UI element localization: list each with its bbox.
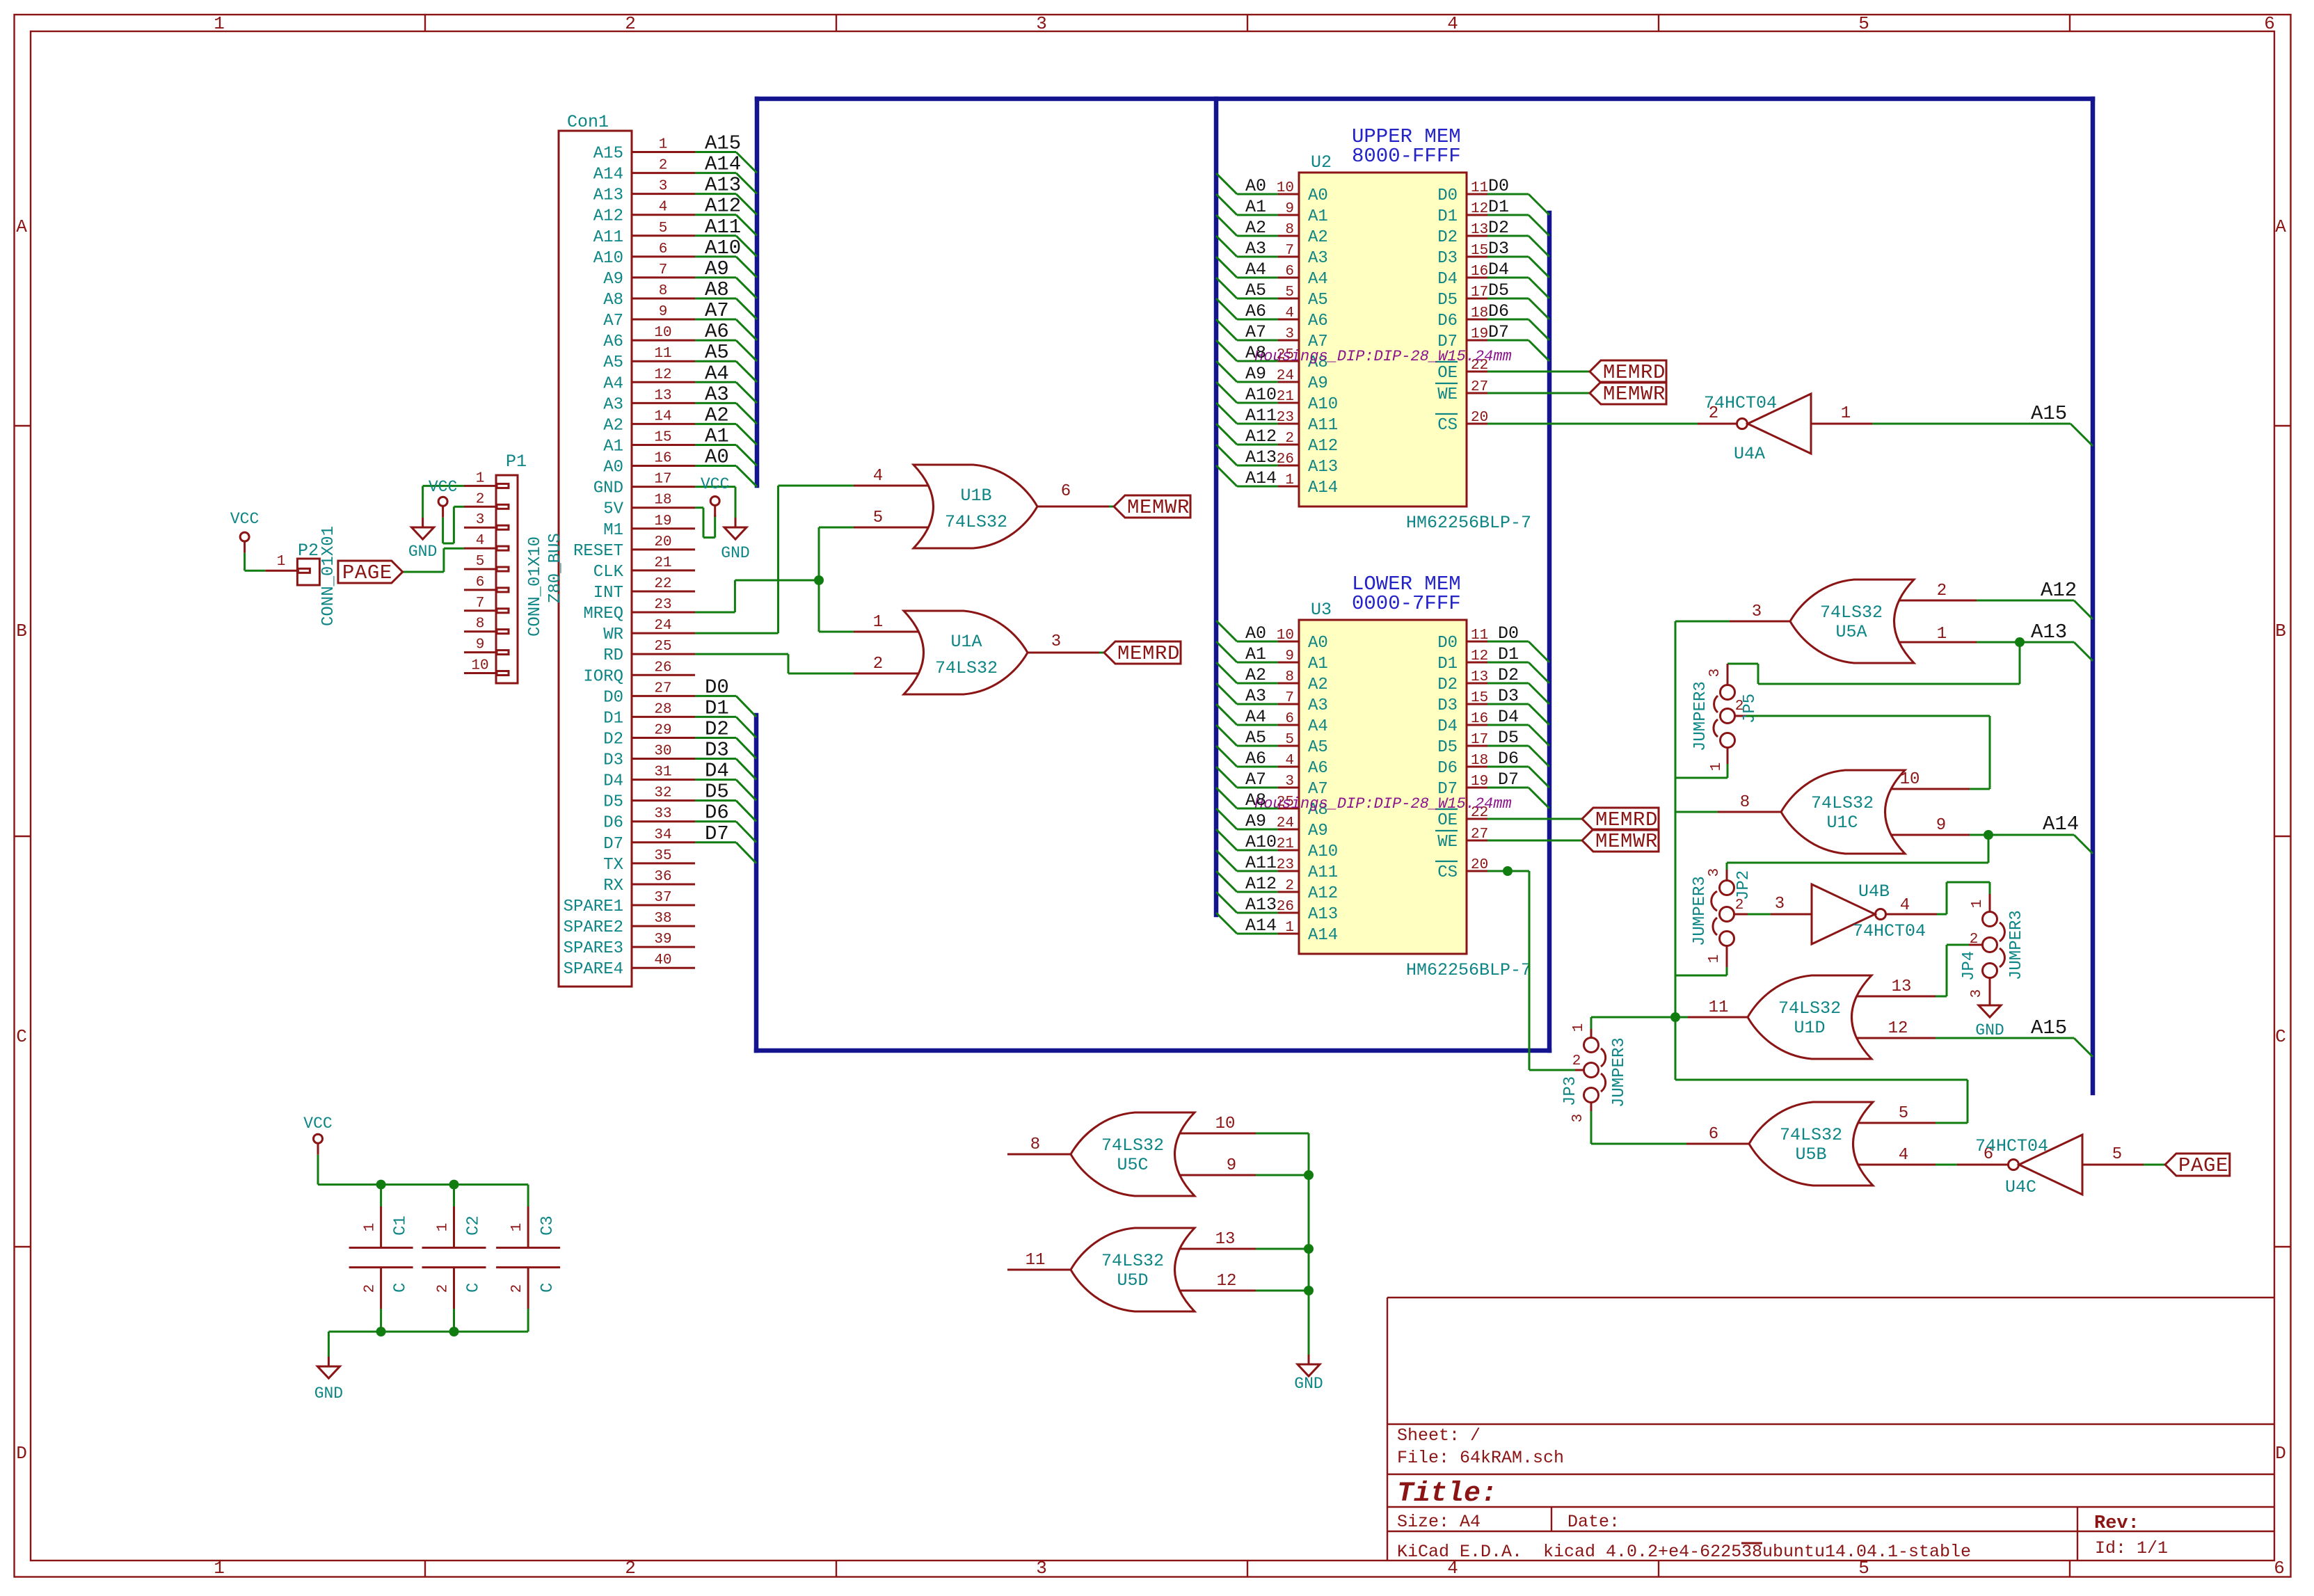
svg-text:15: 15	[654, 429, 671, 445]
svg-text:CS: CS	[1437, 863, 1458, 882]
svg-text:A6: A6	[1245, 749, 1266, 769]
svg-text:9: 9	[1285, 201, 1294, 217]
svg-text:A0: A0	[603, 458, 623, 477]
svg-text:VCC: VCC	[303, 1115, 332, 1133]
svg-text:WR: WR	[603, 625, 623, 644]
svg-text:C: C	[16, 1026, 27, 1047]
wire JP3.1 to U1D.11	[1591, 1017, 1688, 1029]
svg-text:HM62256BLP-7: HM62256BLP-7	[1406, 960, 1531, 980]
svg-text:D6: D6	[1437, 312, 1458, 330]
svg-text:D7: D7	[1498, 769, 1519, 790]
wire A0 from Con1 pin 16 to address bus	[695, 446, 757, 487]
svg-text:Title:: Title:	[1397, 1478, 1497, 1510]
svg-text:17: 17	[654, 472, 671, 488]
svg-text:A11: A11	[1308, 416, 1338, 435]
svg-text:38: 38	[654, 911, 671, 927]
svg-text:5: 5	[1285, 285, 1294, 301]
svg-text:A12: A12	[705, 195, 741, 218]
svg-text:27: 27	[654, 680, 671, 696]
svg-text:D0: D0	[1498, 623, 1519, 644]
bus: address bus vertical (Con1 side)	[755, 99, 760, 486]
svg-text:6: 6	[2264, 13, 2275, 34]
svg-text:37: 37	[654, 890, 671, 906]
wire U3 /OE to MEMRD	[1487, 818, 1582, 820]
svg-text:A0: A0	[1245, 176, 1266, 196]
bus: data bus vertical (U2/U3 side)	[1547, 213, 1552, 1051]
svg-text:D3: D3	[705, 739, 729, 762]
svg-text:5: 5	[873, 509, 883, 527]
svg-text:1: 1	[1707, 955, 1723, 964]
svg-text:GND: GND	[593, 479, 623, 498]
svg-text:D2: D2	[1488, 218, 1509, 238]
svg-text:HM62256BLP-7: HM62256BLP-7	[1406, 513, 1531, 533]
svg-text:D0: D0	[705, 676, 729, 699]
svg-text:D4: D4	[1437, 270, 1458, 289]
wire A11 from Con1 pin 5 to address bus	[695, 216, 757, 257]
svg-text:U1B: U1B	[960, 486, 991, 506]
svg-text:A7: A7	[1245, 769, 1266, 790]
ground symbol at JP4.3	[1975, 987, 2004, 1039]
svg-text:MEMRD: MEMRD	[1117, 642, 1180, 665]
svg-text:1: 1	[659, 137, 668, 153]
or-gate U5C 74LS32 (mirrored)	[1007, 1112, 1256, 1196]
svg-text:A3: A3	[1245, 239, 1266, 259]
svg-text:D4: D4	[603, 772, 623, 791]
svg-text:D: D	[16, 1443, 27, 1464]
svg-text:38: 38	[1741, 1542, 1762, 1562]
svg-text:1: 1	[1285, 472, 1294, 488]
svg-text:A13: A13	[1245, 447, 1277, 468]
svg-text:D2: D2	[1498, 665, 1519, 685]
svg-text:D5: D5	[705, 781, 729, 804]
svg-text:A2: A2	[1308, 228, 1328, 247]
svg-text:A12: A12	[1245, 426, 1277, 447]
jumper JP5 JUMPER3	[1691, 664, 1760, 771]
svg-text:16: 16	[1471, 264, 1488, 280]
svg-text:2: 2	[659, 158, 668, 174]
or-gate U1D 74LS32 (mirrored)	[1688, 975, 1936, 1059]
svg-text:17: 17	[1471, 285, 1488, 301]
svg-text:26: 26	[1277, 452, 1294, 468]
wire JP3.3 to U5B.6	[1591, 1111, 1686, 1144]
svg-text:16: 16	[1471, 711, 1488, 727]
svg-text:A4: A4	[1308, 270, 1328, 289]
svg-text:2: 2	[476, 491, 485, 507]
svg-text:A12: A12	[1245, 874, 1277, 894]
svg-text:8: 8	[1740, 793, 1750, 812]
wire U5D.13 to ground rail	[1256, 1248, 1309, 1250]
svg-text:4: 4	[476, 533, 485, 549]
svg-text:PAGE: PAGE	[2178, 1154, 2228, 1177]
svg-text:12: 12	[1888, 1019, 1908, 1038]
svg-text:A9: A9	[1245, 364, 1266, 384]
svg-text:8: 8	[1285, 222, 1294, 238]
svg-text:22: 22	[654, 576, 671, 592]
svg-text:Z80_BUS: Z80_BUS	[546, 533, 565, 603]
svg-text:A12: A12	[2041, 579, 2077, 602]
wire U3 /CS to JP3.2	[1487, 871, 1575, 1070]
wire A12 from Con1 pin 4 to address bus	[695, 195, 757, 236]
svg-text:C: C	[465, 1283, 484, 1293]
svg-text:VCC: VCC	[429, 478, 457, 496]
svg-text:74HCT04: 74HCT04	[1853, 921, 1926, 941]
svg-text:Housings_DIP:DIP-28_W15.24mm: Housings_DIP:DIP-28_W15.24mm	[1254, 348, 1512, 365]
jumper JP3 JUMPER3	[1561, 1023, 1629, 1123]
svg-text:A1: A1	[1245, 644, 1266, 664]
wire A14 from U1C.9 to bus	[1970, 813, 2093, 854]
svg-text:D2: D2	[1437, 676, 1458, 694]
svg-text:8: 8	[1285, 669, 1294, 685]
global label MEMRD at U2	[1590, 360, 1666, 384]
svg-text:74LS32: 74LS32	[945, 512, 1007, 532]
svg-text:32: 32	[654, 785, 671, 801]
svg-text:D4: D4	[1437, 717, 1458, 736]
svg-text:A12: A12	[593, 207, 623, 226]
svg-text:SPARE1: SPARE1	[564, 897, 623, 916]
wire D3 from Con1 pin 30 to data bus	[695, 739, 756, 780]
svg-text:21: 21	[654, 555, 671, 571]
wire MREQ from Con1 pin 23	[695, 580, 819, 612]
svg-text:A14: A14	[1308, 479, 1338, 497]
junction GND rail C1	[376, 1327, 386, 1336]
svg-text:6: 6	[1285, 264, 1294, 280]
svg-text:3: 3	[1051, 632, 1061, 651]
inverter U4C 74HCT04	[1957, 1135, 2144, 1197]
svg-text:D1: D1	[603, 709, 623, 728]
svg-text:MREQ: MREQ	[583, 605, 623, 623]
wire U4B.4 to JP4.1	[1937, 882, 1990, 914]
wire A8 from Con1 pin 8 to address bus	[695, 278, 757, 319]
svg-text:3: 3	[1775, 895, 1785, 913]
svg-text:D7: D7	[1488, 322, 1509, 342]
svg-text:74LS32: 74LS32	[1811, 793, 1874, 813]
inverter U4A 74HCT04	[1698, 393, 1872, 464]
svg-text:23: 23	[654, 597, 671, 613]
svg-text:7: 7	[476, 596, 485, 612]
svg-text:7: 7	[1285, 690, 1294, 706]
wire A13 from U5A.1 to bus	[1977, 621, 2093, 661]
svg-text:2: 2	[1285, 431, 1294, 447]
svg-text:30: 30	[654, 744, 671, 760]
svg-text:A3: A3	[603, 395, 623, 414]
or-gate U1A 74LS32	[854, 611, 1099, 694]
global label MEMRD at U1A output	[1104, 641, 1181, 665]
wire U5A.3 / JP5.1 / U1C.8 common vertical	[1675, 621, 1730, 1017]
wire GND rail from capacitors	[328, 1309, 528, 1357]
svg-text:23: 23	[1277, 410, 1294, 426]
svg-text:MEMRD: MEMRD	[1595, 808, 1658, 831]
svg-text:8: 8	[476, 616, 485, 632]
svg-text:10: 10	[1277, 180, 1294, 196]
junction U1D.11 input node	[1670, 1012, 1680, 1022]
svg-text:11: 11	[1471, 628, 1488, 644]
svg-text:U5C: U5C	[1117, 1155, 1148, 1175]
svg-text:U5D: U5D	[1117, 1270, 1148, 1291]
svg-text:A0: A0	[705, 446, 729, 469]
svg-text:2: 2	[1970, 932, 1979, 948]
svg-text:6: 6	[659, 241, 668, 257]
svg-text:3: 3	[1285, 326, 1294, 342]
wire D6 from Con1 pin 33 to data bus	[695, 801, 756, 843]
wire A1 from Con1 pin 15 to address bus	[695, 424, 757, 465]
svg-text:29: 29	[654, 722, 671, 738]
svg-text:A9: A9	[1245, 811, 1266, 831]
svg-text:A7: A7	[1245, 322, 1266, 342]
svg-text:13: 13	[1892, 977, 1912, 996]
svg-text:2: 2	[625, 1558, 636, 1579]
svg-text:D3: D3	[1437, 696, 1458, 715]
svg-text:5: 5	[659, 221, 668, 237]
wire from VCC to P1 pin 2	[443, 506, 464, 543]
svg-text:A2: A2	[705, 404, 729, 426]
svg-text:11: 11	[1026, 1251, 1046, 1270]
svg-text:D7: D7	[603, 835, 623, 854]
svg-text:GND: GND	[1294, 1375, 1323, 1393]
VCC symbol at capacitors	[303, 1115, 332, 1155]
svg-text:M1: M1	[603, 521, 623, 540]
svg-text:VCC: VCC	[230, 510, 259, 528]
svg-text:A10: A10	[705, 237, 741, 260]
svg-text:12: 12	[1471, 201, 1488, 217]
wire U1D.11 net branch to U5B.5	[1675, 1017, 1968, 1123]
svg-text:13: 13	[1215, 1230, 1236, 1249]
svg-text:A1: A1	[1308, 655, 1328, 673]
svg-text:MEMWR: MEMWR	[1595, 830, 1658, 853]
svg-text:74LS32: 74LS32	[935, 658, 998, 678]
svg-text:34: 34	[654, 827, 671, 843]
wire U2 /CS from U4A output	[1487, 423, 1698, 425]
svg-text:3: 3	[1036, 1558, 1047, 1579]
wire D5 from Con1 pin 32 to data bus	[695, 781, 756, 822]
svg-text:JUMPER3: JUMPER3	[1691, 876, 1709, 946]
ground symbol at U5C/U5D	[1294, 1355, 1323, 1393]
wire U1B.6 to MEMWR label	[1109, 506, 1114, 508]
svg-text:Rev:: Rev:	[2094, 1513, 2139, 1534]
svg-text:3: 3	[1752, 603, 1762, 621]
svg-text:3: 3	[1707, 868, 1723, 877]
svg-text:A13: A13	[1245, 895, 1277, 915]
svg-text:A8: A8	[705, 278, 729, 301]
svg-text:U5B: U5B	[1795, 1144, 1826, 1165]
svg-text:1: 1	[436, 1223, 452, 1232]
svg-text:CONN_01X10: CONN_01X10	[526, 536, 545, 637]
svg-text:D3: D3	[1437, 249, 1458, 268]
svg-text:JUMPER3: JUMPER3	[2007, 910, 2026, 980]
wire A4 from Con1 pin 12 to address bus	[695, 362, 757, 403]
svg-text:B: B	[16, 621, 27, 641]
svg-text:19: 19	[654, 513, 671, 529]
svg-text:U4C: U4C	[2005, 1177, 2036, 1197]
wire MREQ vertical to U1B.5 and U1A.1	[819, 527, 854, 632]
svg-text:A5: A5	[603, 353, 623, 372]
svg-text:A3: A3	[1308, 696, 1328, 715]
svg-text:CONN_01X01: CONN_01X01	[319, 526, 338, 626]
svg-text:A1: A1	[1308, 207, 1328, 226]
svg-text:D5: D5	[1488, 280, 1509, 301]
svg-text:18: 18	[1471, 305, 1488, 321]
svg-text:5V: 5V	[603, 500, 623, 519]
svg-text:74LS32: 74LS32	[1778, 998, 1841, 1019]
svg-text:CLK: CLK	[593, 563, 624, 582]
svg-text:SPARE4: SPARE4	[564, 960, 623, 979]
svg-text:18: 18	[1471, 753, 1488, 769]
wire A15 from bus to U4A.1	[1872, 402, 2093, 446]
global label MEMRD at U3	[1582, 808, 1659, 831]
or-gate U5D 74LS32 (mirrored)	[1007, 1228, 1256, 1311]
svg-text:18: 18	[654, 493, 671, 509]
svg-text:VCC: VCC	[701, 475, 729, 493]
wire A10 from Con1 pin 6 to address bus	[695, 237, 757, 278]
VCC symbol at P2	[230, 510, 259, 553]
svg-text:A11: A11	[1245, 406, 1277, 426]
svg-text:23: 23	[1277, 857, 1294, 873]
svg-text:21: 21	[1277, 389, 1294, 405]
svg-text:A5: A5	[1308, 291, 1328, 310]
svg-text:U2: U2	[1311, 152, 1332, 173]
svg-text:A10: A10	[1245, 832, 1277, 852]
svg-text:D1: D1	[705, 696, 729, 719]
svg-text:C: C	[538, 1283, 557, 1293]
connector Con1	[559, 112, 695, 987]
svg-text:5: 5	[1285, 732, 1294, 748]
svg-text:39: 39	[654, 932, 671, 948]
bus: address bus vertical to U2/U3	[1214, 99, 1219, 915]
svg-text:A10: A10	[1308, 395, 1338, 414]
svg-text:D3: D3	[603, 751, 623, 770]
svg-text:A4: A4	[705, 362, 729, 385]
or-gate U1B 74LS32	[854, 465, 1109, 548]
svg-text:74LS32: 74LS32	[1820, 603, 1883, 623]
svg-text:12: 12	[654, 367, 671, 383]
svg-text:35: 35	[654, 848, 671, 864]
svg-text:28: 28	[654, 701, 671, 717]
svg-text:Housings_DIP:DIP-28_W15.24mm: Housings_DIP:DIP-28_W15.24mm	[1254, 795, 1512, 813]
capacitor C2	[422, 1206, 486, 1309]
svg-text:20: 20	[1471, 857, 1488, 873]
svg-text:D6: D6	[603, 814, 623, 833]
svg-text:A13: A13	[705, 174, 741, 197]
svg-text:GND: GND	[1975, 1021, 2004, 1039]
svg-text:A14: A14	[593, 166, 623, 184]
svg-text:TX: TX	[603, 856, 623, 875]
svg-text:D2: D2	[705, 717, 729, 740]
bus: right vertical A12-A15 bus	[2091, 99, 2096, 1093]
svg-text:31: 31	[654, 765, 671, 781]
svg-text:2: 2	[625, 13, 636, 34]
svg-text:U1D: U1D	[1794, 1018, 1825, 1038]
svg-text:U1C: U1C	[1826, 813, 1858, 833]
svg-text:3: 3	[659, 179, 668, 195]
global label MEMWR at U1B output	[1114, 495, 1190, 519]
svg-text:Sheet: /: Sheet: /	[1397, 1426, 1481, 1446]
svg-text:C3: C3	[538, 1215, 557, 1236]
svg-text:D5: D5	[603, 793, 623, 812]
svg-text:9: 9	[476, 637, 485, 653]
svg-text:4: 4	[659, 200, 668, 216]
svg-text:3: 3	[1285, 774, 1294, 790]
svg-text:A: A	[2275, 216, 2286, 237]
svg-text:12: 12	[1471, 648, 1488, 664]
svg-text:A4: A4	[1245, 260, 1266, 280]
svg-text:D4: D4	[1488, 260, 1509, 280]
svg-text:A11: A11	[1308, 863, 1338, 882]
svg-text:C: C	[392, 1283, 410, 1293]
svg-text:A14: A14	[705, 153, 741, 176]
svg-text:12: 12	[1217, 1272, 1237, 1291]
svg-text:B: B	[2275, 621, 2286, 641]
svg-text:A8: A8	[1245, 343, 1266, 363]
svg-text:A12: A12	[1308, 884, 1338, 903]
svg-text:D0: D0	[1437, 186, 1458, 205]
svg-text:16: 16	[654, 451, 671, 467]
svg-text:A2: A2	[1308, 676, 1328, 694]
wire RD from Con1 pin 25 to U1A.2	[695, 654, 854, 673]
global label MEMWR at U3	[1582, 829, 1659, 853]
svg-text:10: 10	[471, 658, 488, 674]
svg-text:26: 26	[654, 660, 671, 676]
svg-text:1: 1	[362, 1223, 378, 1232]
svg-text:24: 24	[1277, 368, 1294, 384]
wire 5V from Con1 pin 18 to VCC	[695, 508, 715, 538]
svg-text:21: 21	[1277, 836, 1294, 852]
wire JP4.2 to U1D.13	[1936, 945, 1969, 996]
svg-text:A6: A6	[1308, 312, 1328, 330]
svg-text:D6: D6	[1488, 301, 1509, 321]
svg-text:25: 25	[654, 639, 671, 655]
svg-text:SPARE2: SPARE2	[564, 918, 623, 937]
svg-text:4: 4	[1285, 305, 1294, 321]
svg-text:3: 3	[1707, 669, 1723, 678]
svg-text:14: 14	[654, 408, 671, 424]
wire A7 from Con1 pin 9 to address bus	[695, 299, 757, 340]
wire D7 from Con1 pin 34 to data bus	[695, 822, 756, 863]
wire D0 from Con1 pin 27 to data bus	[695, 676, 756, 717]
svg-text:9: 9	[659, 304, 668, 320]
junction U5C.9 node	[1304, 1170, 1314, 1180]
svg-text:A15: A15	[705, 132, 741, 155]
svg-text:2: 2	[1572, 1053, 1581, 1069]
svg-text:A9: A9	[1308, 374, 1328, 393]
jumper JP2 JUMPER3	[1691, 868, 1753, 967]
wire U1A.3 to MEMRD label	[1099, 652, 1104, 654]
svg-text:D5: D5	[1437, 738, 1458, 757]
connector P2 CONN_01X01	[265, 526, 338, 626]
svg-text:A14: A14	[2043, 813, 2079, 836]
svg-text:A10: A10	[1245, 385, 1277, 405]
svg-text:15: 15	[1471, 690, 1488, 706]
svg-text:8000-FFFF: 8000-FFFF	[1352, 145, 1461, 168]
svg-text:A3: A3	[1245, 686, 1266, 706]
wire A2 from Con1 pin 14 to address bus	[695, 404, 757, 445]
svg-text:A5: A5	[705, 341, 729, 364]
wire D4 from Con1 pin 31 to data bus	[695, 760, 756, 801]
svg-text:1: 1	[873, 613, 883, 632]
junction U5D.12 node	[1304, 1286, 1314, 1295]
svg-text:D0: D0	[1488, 176, 1509, 196]
svg-text:A7: A7	[705, 299, 729, 322]
or-gate U1C 74LS32 (mirrored)	[1718, 770, 1970, 854]
svg-text:4: 4	[1900, 896, 1910, 915]
junction A14 node	[1984, 830, 1993, 840]
svg-text:9: 9	[1285, 648, 1294, 664]
svg-text:MEMRD: MEMRD	[1603, 361, 1666, 384]
svg-text:6: 6	[2274, 1558, 2285, 1579]
svg-text:D4: D4	[705, 760, 729, 783]
svg-text:13: 13	[654, 388, 671, 404]
global label PAGE at P2	[338, 561, 403, 584]
svg-text:D2: D2	[1437, 228, 1458, 247]
wire A3 from Con1 pin 13 to address bus	[695, 383, 757, 424]
